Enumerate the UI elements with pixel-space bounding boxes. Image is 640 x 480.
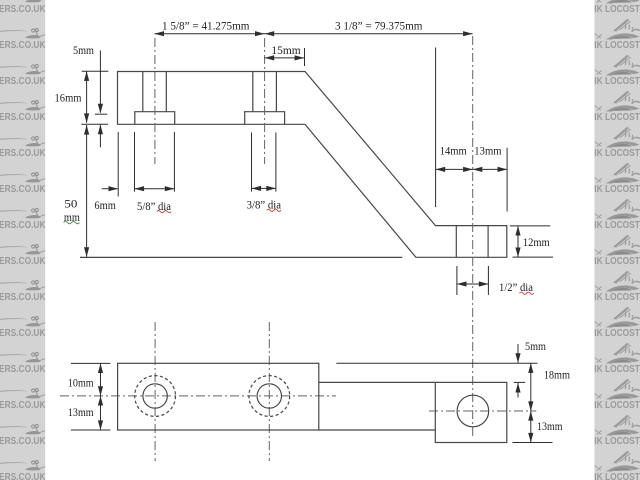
arrows 18mm 13mm — [528, 363, 533, 373]
arrows 5mm left — [98, 104, 103, 114]
ticks 10mm 13mm — [71, 363, 111, 430]
arrow dim1 left — [154, 31, 164, 36]
bush bore walls — [456, 226, 488, 258]
centerline square hole horizontal — [429, 410, 536, 412]
ext line 14mm left — [435, 48, 437, 208]
svg-text:3 1/8” = 79.375mm: 3 1/8” = 79.375mm — [335, 19, 423, 33]
dim 5mm plan leader — [517, 344, 519, 398]
boss 2 (3/8 dia pad) — [245, 112, 285, 125]
centerline hole 2 side view — [264, 38, 266, 164]
arrows dim1 center bowtie — [255, 31, 265, 36]
tick 5mm left — [95, 113, 107, 115]
ext line 13mm right — [506, 148, 508, 212]
centerline hole 1 plan — [154, 322, 156, 461]
svg-text:12mm: 12mm — [523, 235, 550, 249]
arrowheads — [84, 31, 533, 442]
arrows 5mm plan — [515, 353, 520, 363]
dim 14mm 13mm line — [436, 168, 508, 170]
svg-text:13mm: 13mm — [68, 405, 94, 419]
plan bush hole — [457, 395, 489, 427]
arrows 5/8 dia — [135, 186, 145, 191]
plan plate — [118, 363, 319, 430]
tick plan bottom right — [513, 442, 553, 444]
dim line 1 5/8 and 3 1/8 — [154, 33, 472, 35]
dim 16mm line — [86, 71, 88, 123]
arrow dim1 right — [463, 31, 473, 36]
left watermark strip — [0, 0, 48, 480]
svg-text:14mm: 14mm — [440, 144, 468, 158]
svg-text:18mm: 18mm — [544, 368, 571, 382]
tick 5mm plan — [514, 381, 525, 383]
ext line 15mm — [304, 48, 306, 66]
centerline hole 2 plan — [268, 322, 270, 461]
svg-text:10mm: 10mm — [68, 376, 94, 390]
ext lines 1/2 dia — [457, 266, 489, 295]
arrows 10mm 13mm — [98, 363, 103, 373]
bolt hole 2 walls — [253, 72, 277, 112]
squiggle green mm — [64, 221, 80, 223]
arrows 15mm — [265, 55, 275, 60]
arrows 50mm — [84, 125, 89, 135]
svg-text:16mm: 16mm — [55, 91, 83, 105]
ext lines 5/8 dia — [135, 132, 175, 192]
dim 15mm line — [265, 57, 305, 59]
svg-text:13mm: 13mm — [537, 419, 563, 433]
ext line plan top edge — [336, 362, 537, 364]
svg-text:5mm: 5mm — [525, 339, 547, 353]
ext lines 3/8 dia — [252, 133, 276, 192]
arrow 6mm — [109, 186, 119, 191]
squiggle red 5/8 dia — [157, 211, 171, 213]
dim 18mm 13mm line — [530, 363, 532, 442]
boss 1 (5/8 dia pad) — [135, 112, 175, 125]
arrows 14mm 13mm — [436, 167, 446, 172]
squiggle red 1/2 dia — [519, 292, 533, 294]
centerline bush vertical — [472, 36, 474, 438]
arrows 16mm — [84, 71, 89, 81]
datum base line — [80, 256, 402, 258]
centerlines — [60, 36, 536, 461]
plan hole 1 — [143, 384, 167, 408]
svg-text:13mm: 13mm — [474, 144, 502, 158]
plan arm top edge — [319, 381, 436, 383]
dim 5mm left leader — [99, 51, 101, 148]
bracket outline side view — [118, 72, 507, 258]
dim 10mm 13mm line — [100, 363, 102, 430]
dim 3/8 dia line — [252, 187, 276, 189]
svg-text:6mm: 6mm — [94, 198, 116, 212]
plan hole 1 boss dashed — [135, 376, 176, 417]
plan arm bottom edge — [319, 429, 436, 431]
svg-text:15mm: 15mm — [271, 43, 301, 57]
centerline hole 1 side view — [154, 38, 156, 164]
dim 50mm line — [86, 125, 88, 257]
dim 12mm line — [517, 226, 519, 257]
squiggle red 3/8 dia — [267, 209, 281, 211]
centerline plan horizontal — [60, 395, 336, 397]
ticks 12mm — [510, 226, 553, 257]
dim 1/2 dia line — [457, 283, 489, 285]
arrows 12mm — [515, 226, 520, 236]
tick 16mm top — [82, 70, 109, 72]
plan square pad — [435, 382, 507, 442]
ext line 6mm — [117, 132, 119, 197]
svg-text:1 5/8” = 41.275mm: 1 5/8” = 41.275mm — [162, 19, 250, 33]
dim 5/8 dia line — [135, 188, 175, 190]
tick plate bottom — [81, 123, 108, 125]
bolt hole 1 walls — [143, 72, 167, 112]
arrows 3/8 dia — [252, 186, 262, 191]
svg-text:50: 50 — [64, 197, 77, 211]
dim 6mm leader — [102, 188, 118, 190]
arrows 1/2 dia — [457, 281, 467, 286]
svg-text:5mm: 5mm — [73, 43, 95, 57]
right watermark strip — [594, 0, 640, 480]
plan hole 2 boss dashed — [249, 376, 290, 417]
plan hole 2 — [257, 384, 281, 408]
